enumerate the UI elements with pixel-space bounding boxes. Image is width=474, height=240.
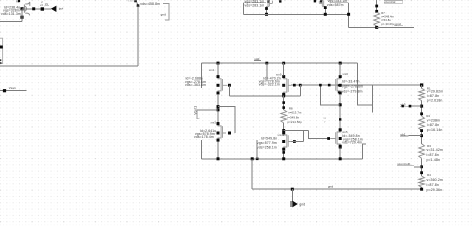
junction Tb drain <box>324 6 327 9</box>
junction T1 gate <box>228 84 231 87</box>
wire x138 vertical <box>137 6 139 66</box>
resistor R2 <box>419 116 425 130</box>
wire long horizontal y65.8 <box>0 65 138 67</box>
svg-text:v=31.42m: v=31.42m <box>427 148 443 152</box>
wire Tb gate stub <box>331 2 349 4</box>
svg-text:Id=549.8n: Id=549.8n <box>261 137 277 141</box>
svg-text:p=2.618n: p=2.618n <box>427 99 443 103</box>
svg-text:p=16.14n: p=16.14n <box>427 128 443 132</box>
svg-text:vds=729.4m: vds=729.4m <box>342 141 362 145</box>
wire Tb drain <box>324 6 326 14</box>
svg-text:vds=587m: vds=587m <box>327 3 344 7</box>
wire Tr source lead <box>339 63 341 75</box>
transistor Tb symbol (cut top) <box>319 0 325 6</box>
junction node Vout1 <box>217 108 220 111</box>
wire chain lead4 <box>421 158 423 176</box>
junction railA-T5 <box>339 157 342 160</box>
junction vdd-x267 <box>265 62 268 65</box>
junction railA-x257 <box>256 158 259 161</box>
svg-text:i=54.8u: i=54.8u <box>381 18 391 22</box>
wire T2 source lead <box>283 63 285 75</box>
svg-text:i=87.8n: i=87.8n <box>427 183 439 187</box>
wire chain lead1 <box>421 85 423 88</box>
junction chain n2 <box>420 112 423 115</box>
junction gate net c <box>328 84 331 87</box>
wire rail B <box>252 188 422 190</box>
junction T4 source a <box>282 151 285 154</box>
transistor T4 symbol <box>284 132 291 151</box>
source V1 terminal dot <box>0 46 3 49</box>
junction chain n3 <box>420 129 423 132</box>
wire y27.4 to resistor <box>349 26 377 28</box>
junction vdd-T1 <box>217 62 220 65</box>
svg-text:1x: 1x <box>323 116 327 120</box>
transistor Tr symbol <box>329 75 340 94</box>
junction railA-T3 <box>217 157 220 160</box>
resistor R8 <box>281 110 287 123</box>
junction T5 drain <box>339 129 342 132</box>
svg-text:xm3: xm3 <box>211 121 217 125</box>
wire R8 to T4 <box>283 123 285 136</box>
svg-text:Id=-33.47n: Id=-33.47n <box>342 79 360 83</box>
wire chain lead3 <box>421 130 423 144</box>
wire T1 source lead <box>217 63 219 75</box>
wire chain bottom lead <box>421 187 423 189</box>
wire T2 drain down <box>283 96 285 110</box>
wire T4 drain right <box>284 129 309 131</box>
junction resistor R7 bottom <box>375 26 378 29</box>
svg-text:i=87.8n: i=87.8n <box>427 123 439 127</box>
junction T4 gate <box>293 140 296 143</box>
svg-text:vgs=-278.6m: vgs=-278.6m <box>342 84 363 88</box>
junction x340 node2 <box>339 118 341 120</box>
wire T4 source lead <box>283 150 285 158</box>
svg-text:i=87.8n: i=87.8n <box>427 153 439 157</box>
junction railA-T4 <box>282 157 285 160</box>
junction on in+ wire <box>32 7 35 10</box>
junction vdd-T2 <box>282 62 285 65</box>
junction node x138 <box>137 4 140 7</box>
wire chain top junction <box>420 83 423 86</box>
junction vdd-Tr <box>339 62 342 65</box>
svg-text:v2: v2 <box>40 3 43 7</box>
wire vdd rail <box>201 62 357 64</box>
gnd bracket wire <box>163 4 169 20</box>
svg-text:vds=258.1m: vds=258.1m <box>257 146 277 150</box>
wire gnd symbol lead <box>291 189 293 202</box>
transistor T5 symbol <box>330 129 340 148</box>
svg-text:in+: in+ <box>59 7 64 11</box>
junction node A <box>217 105 220 108</box>
svg-text:vds=-279.8m: vds=-279.8m <box>342 90 363 94</box>
svg-text:vds=283.1m: vds=283.1m <box>245 4 265 8</box>
resistor R7 <box>374 12 380 26</box>
wire gate net y85.1 <box>291 84 422 86</box>
wire T2 diode connect <box>299 85 301 96</box>
wire M0 source down <box>21 9 23 22</box>
resistor R4 <box>419 176 425 187</box>
junction T5 gate <box>327 137 330 140</box>
wire rail B riser <box>251 159 253 189</box>
wire T4 gate right <box>291 141 304 143</box>
junction rail right <box>347 13 350 16</box>
svg-text:vds=178.4m: vds=178.4m <box>194 135 214 139</box>
wire x257 stub <box>256 140 258 159</box>
wire Ta drain <box>266 6 268 14</box>
svg-text:Vss1: Vss1 <box>9 86 16 90</box>
svg-text:gnd: gnd <box>299 203 305 207</box>
wire mirror left end <box>242 3 244 15</box>
junction small top-left <box>18 0 20 2</box>
node M0 source junction <box>20 16 23 19</box>
wire rail A right end <box>362 144 366 159</box>
junction T3 top pin <box>217 122 219 124</box>
wire drop to T5 gate <box>309 130 329 138</box>
junction Ta drain <box>265 7 268 10</box>
junction T4 drain node <box>282 129 285 132</box>
wire chain lead2 <box>421 101 423 117</box>
input pin in+ arrow <box>51 6 57 12</box>
svg-text:v=238m: v=238m <box>427 118 440 122</box>
ground symbol <box>292 201 298 208</box>
junction vb5 tap <box>409 105 412 108</box>
wire gnd y27.4 <box>377 26 414 28</box>
svg-text:vds=-363.6m: vds=-363.6m <box>185 83 206 87</box>
svg-text:xm1: xm1 <box>209 68 215 72</box>
source V1 bottom marks <box>0 59 1 61</box>
junction railA-riser <box>251 157 254 160</box>
wire vcontrol stub <box>376 0 378 11</box>
svg-text:vds=131.3m: vds=131.3m <box>1 12 21 16</box>
wire x372.5 vertical <box>372 85 374 112</box>
source V1 box (cut at edge) <box>0 38 3 63</box>
svg-text:gnd: gnd <box>161 12 167 16</box>
svg-text:110n: 110n <box>128 1 134 3</box>
node v2 junction <box>41 7 44 10</box>
junction resistor R7 top <box>375 10 378 13</box>
junction chain vb5 <box>420 105 423 108</box>
wire T1 gate down <box>228 85 230 96</box>
wire Vss1 <box>0 90 26 92</box>
wire left vertical lower stub <box>200 140 202 159</box>
transistor T3 symbol <box>218 123 226 142</box>
wire mirror rail y14.3 <box>243 13 348 15</box>
junction gnd tap <box>291 188 294 191</box>
junction gate net d <box>319 84 322 87</box>
svg-text:p=214.56p: p=214.56p <box>288 120 303 124</box>
junction chain vcontrolb <box>420 165 423 168</box>
junction Vss1 <box>3 89 6 92</box>
svg-text:vgs=577.9m: vgs=577.9m <box>257 141 277 145</box>
pin marker top <box>134 0 137 2</box>
svg-text:v=613.7m: v=613.7m <box>288 111 302 115</box>
junction R8 upper b <box>282 106 285 109</box>
wire T1 drain down <box>217 94 219 123</box>
transistor M0 symbol <box>24 2 29 16</box>
svg-text:v=548.4m: v=548.4m <box>381 15 394 19</box>
resistor R1 <box>419 88 425 100</box>
svg-text:vds=458.8m: vds=458.8m <box>140 2 160 6</box>
resistor R3 <box>419 144 425 158</box>
junction gate net b <box>299 84 302 87</box>
wire vdd right drop <box>357 63 372 105</box>
junction T5 source <box>339 146 342 149</box>
junction Tr pin b <box>338 91 340 93</box>
wire bottom-left to edge <box>0 21 22 23</box>
wire gate tap down <box>320 85 340 105</box>
junction T3 gate <box>228 132 231 135</box>
wire Vout1 <box>197 109 218 111</box>
junction vcontrol a <box>375 5 378 8</box>
transistor Ta symbol (cut top) <box>266 0 272 6</box>
wire rail A <box>201 158 362 160</box>
wire M0 to in+ <box>22 8 51 10</box>
junction Ta on rail <box>265 13 268 16</box>
wire x266.8 vertical <box>266 63 268 81</box>
junction chain n4 <box>420 171 423 174</box>
svg-text:xm6: xm6 <box>343 72 349 76</box>
wire T5 source lead <box>339 147 341 158</box>
transistor T2 symbol <box>284 75 291 95</box>
junction gate net a <box>293 84 296 87</box>
svg-text:R2: R2 <box>426 114 430 118</box>
wire T3 source lead <box>217 141 219 159</box>
svg-text:p=29.36n: p=29.36n <box>427 188 443 192</box>
svg-text:p=1.48n: p=1.48n <box>427 158 441 162</box>
svg-text:vds=-322.1m: vds=-322.1m <box>259 82 280 86</box>
svg-text:p=-30.06u: p=-30.06u <box>381 22 395 26</box>
svg-text:R7: R7 <box>381 11 385 15</box>
junction T2 drain <box>282 95 285 98</box>
wire left vertical upper stub <box>200 63 202 88</box>
svg-text:gnd: gnd <box>328 185 334 189</box>
Vout1 bracket <box>197 110 200 119</box>
wire vb1 tap <box>409 135 422 137</box>
junction chain vb1 <box>420 134 423 137</box>
wire y96 gate tie <box>229 95 300 97</box>
transistor T1 symbol <box>218 75 228 94</box>
wire node A right <box>218 107 235 133</box>
wire vcontrolb tap <box>414 166 422 168</box>
wire mirror right drop <box>348 3 350 28</box>
wire Tr drain down <box>339 94 341 130</box>
junction chain bottom <box>420 188 423 191</box>
junction Tr pin a <box>338 84 340 86</box>
wire Ta gate stub <box>243 2 266 4</box>
svg-text:v=360.2m: v=360.2m <box>427 178 443 182</box>
junction R8 upper a <box>282 101 285 104</box>
node M0 gate junction <box>20 7 23 10</box>
junction Tb on rail <box>324 13 327 16</box>
svg-text:i=87.8n: i=87.8n <box>427 94 439 98</box>
svg-text:R4: R4 <box>427 173 431 177</box>
junction x340 node1 <box>339 103 342 106</box>
wire vb5 tap <box>409 105 422 107</box>
junction squares top rail <box>267 0 270 3</box>
wire T4 diode connect <box>303 130 305 141</box>
